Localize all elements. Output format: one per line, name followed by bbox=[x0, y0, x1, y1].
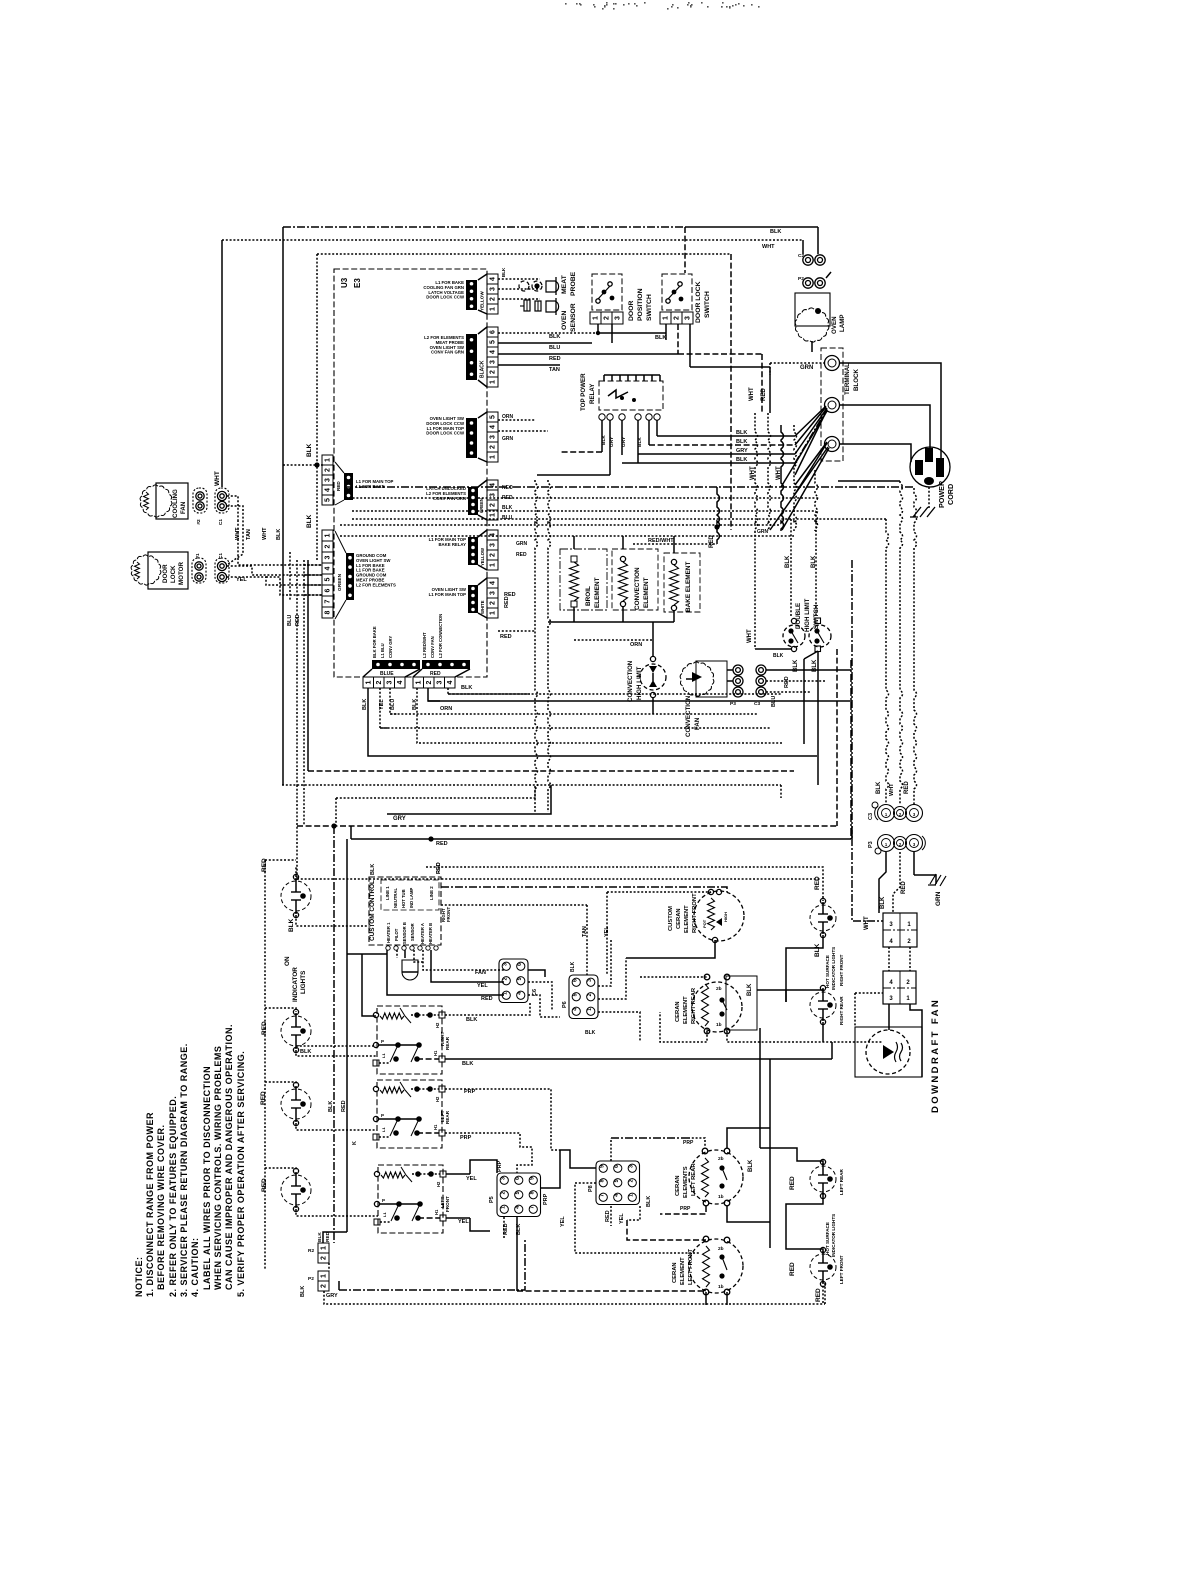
wires P3 down bbox=[879, 852, 886, 913]
svg-text:P: P bbox=[382, 1198, 385, 1203]
svg-text:TAN: TAN bbox=[246, 529, 252, 540]
svg-text:WHITE: WHITE bbox=[480, 600, 485, 614]
svg-text:TAN: TAN bbox=[549, 367, 560, 373]
svg-text:RED: RED bbox=[260, 1091, 267, 1105]
convection high limit wires bbox=[652, 622, 654, 656]
svg-text:BAKE RELAY: BAKE RELAY bbox=[438, 542, 466, 547]
svg-text:2: 2 bbox=[587, 993, 593, 996]
svg-text:4: 4 bbox=[572, 1008, 578, 1011]
wire lamp to terminal block bbox=[811, 341, 813, 352]
svg-text:4: 4 bbox=[490, 277, 497, 281]
svg-text:ELEMENT: ELEMENT bbox=[684, 905, 690, 933]
long dashed line bbox=[297, 825, 837, 827]
svg-text:MOTOR: MOTOR bbox=[178, 562, 185, 585]
svg-text:BLK: BLK bbox=[328, 1101, 334, 1112]
wires right rear element bbox=[640, 976, 707, 978]
svg-text:BLK FOR BAKE: BLK FOR BAKE bbox=[372, 626, 377, 658]
svg-text:2: 2 bbox=[490, 370, 497, 374]
svg-text:GRY: GRY bbox=[609, 436, 615, 447]
connector P5 bbox=[497, 1173, 541, 1217]
svg-text:2: 2 bbox=[628, 1179, 634, 1182]
svg-text:BLK: BLK bbox=[736, 439, 747, 445]
svg-text:DOWNDRAFT FAN: DOWNDRAFT FAN bbox=[930, 998, 941, 1113]
svg-text:WHT: WHT bbox=[776, 466, 782, 480]
door position switch bbox=[592, 274, 622, 310]
bus line RED WHT bbox=[633, 543, 717, 545]
svg-text:PRP: PRP bbox=[460, 1135, 472, 1141]
svg-text:FRONT: FRONT bbox=[446, 907, 451, 922]
double high limit wires bbox=[790, 519, 792, 617]
svg-text:P: P bbox=[381, 1039, 384, 1044]
svg-text:#2: #2 bbox=[196, 519, 202, 525]
wires from custom control pins bbox=[347, 953, 387, 955]
svg-text:LAMP: LAMP bbox=[839, 314, 846, 332]
wires P1 to downdraft fan bbox=[888, 1004, 890, 1030]
svg-text:P3: P3 bbox=[868, 841, 874, 848]
connector P2 bbox=[318, 1271, 329, 1281]
svg-text:9: 9 bbox=[599, 1165, 605, 1168]
svg-text:3: 3 bbox=[490, 435, 497, 439]
fan connector wires bbox=[727, 669, 733, 671]
terminal 3 bbox=[825, 437, 840, 452]
svg-text:ELEMENT: ELEMENT bbox=[594, 577, 601, 608]
wires right rear indicator bbox=[786, 988, 823, 1002]
svg-text:BLK: BLK bbox=[549, 334, 560, 340]
svg-text:RIGHT FRONT: RIGHT FRONT bbox=[692, 893, 698, 933]
connector P1 grid bbox=[883, 971, 916, 1004]
svg-text:BLK: BLK bbox=[570, 961, 576, 972]
svg-text:LINE 1: LINE 1 bbox=[385, 886, 390, 900]
svg-text:6: 6 bbox=[515, 1177, 521, 1180]
wires from fan/motor connectors to green connector bbox=[227, 506, 243, 564]
wires door position switch bbox=[597, 324, 599, 333]
oven box bottom line bbox=[336, 785, 535, 798]
svg-text:TERMINAL: TERMINAL bbox=[844, 363, 851, 395]
svg-text:BLK: BLK bbox=[306, 443, 313, 457]
svg-text:L1: L1 bbox=[382, 1212, 387, 1217]
svg-text:HEATER A: HEATER A bbox=[420, 923, 425, 944]
svg-text:C2: C2 bbox=[798, 253, 804, 259]
svg-text:6: 6 bbox=[614, 1165, 620, 1168]
svg-text:3: 3 bbox=[500, 1177, 506, 1180]
cooling fan connector C2 bbox=[215, 488, 229, 513]
svg-text:BLK: BLK bbox=[747, 983, 753, 996]
svg-text:CONV GRY: CONV GRY bbox=[388, 636, 393, 658]
svg-text:1: 1 bbox=[365, 680, 372, 684]
svg-text:1: 1 bbox=[500, 1206, 506, 1209]
custom control pins bbox=[386, 946, 390, 950]
svg-text:ORN: ORN bbox=[502, 414, 514, 420]
svg-text:INDICATOR LIGHTS: INDICATOR LIGHTS bbox=[831, 947, 836, 990]
svg-text:POWER: POWER bbox=[937, 480, 946, 508]
svg-text:OVEN: OVEN bbox=[831, 316, 838, 334]
svg-text:H2: H2 bbox=[436, 1181, 441, 1187]
svg-text:1: 1 bbox=[490, 563, 497, 567]
svg-text:GRY: GRY bbox=[621, 436, 627, 447]
svg-text:BLK: BLK bbox=[814, 943, 821, 957]
svg-text:4: 4 bbox=[490, 581, 497, 585]
door lock motor bbox=[131, 555, 161, 585]
infinite switch left front bbox=[378, 1165, 443, 1233]
long horizontal lower oven lines bbox=[308, 770, 794, 772]
custom control inner box bbox=[381, 880, 439, 910]
wires left front indicator bbox=[786, 1240, 823, 1252]
svg-text:H2: H2 bbox=[435, 1022, 440, 1028]
svg-text:YEL: YEL bbox=[466, 1176, 477, 1182]
wires custom ceran right front bbox=[586, 905, 588, 975]
svg-text:7: 7 bbox=[529, 1206, 535, 1209]
svg-text:L1: L1 bbox=[381, 1053, 386, 1058]
svg-text:CONVECTION: CONVECTION bbox=[627, 660, 634, 702]
svg-text:GRY: GRY bbox=[393, 816, 406, 822]
svg-text:YEL: YEL bbox=[236, 577, 247, 583]
svg-text:POSITION: POSITION bbox=[637, 288, 644, 321]
wires door switches to bundle bbox=[665, 333, 667, 340]
outer border box left/top bbox=[283, 226, 685, 228]
svg-text:RED: RED bbox=[336, 481, 341, 491]
infinite switch left rear bbox=[377, 1080, 442, 1148]
svg-text:BLU: BLU bbox=[502, 515, 513, 521]
svg-text:P5: P5 bbox=[489, 1196, 495, 1203]
connector C3 column bbox=[756, 665, 766, 675]
svg-text:LIGHTS: LIGHTS bbox=[300, 970, 307, 994]
svg-text:2: 2 bbox=[502, 977, 508, 980]
verticals into bottom section bbox=[333, 826, 335, 1243]
svg-text:GREEN: GREEN bbox=[479, 498, 484, 513]
svg-text:SWITCH: SWITCH bbox=[704, 291, 711, 318]
wire BLK corner to door lock switch bbox=[684, 227, 686, 273]
svg-text:RED: RED bbox=[502, 495, 513, 501]
svg-text:OVEN: OVEN bbox=[561, 311, 568, 330]
svg-text:2. REFER ONLY TO FEATURES EQUI: 2. REFER ONLY TO FEATURES EQUIPPED. bbox=[168, 1096, 178, 1297]
svg-text:3: 3 bbox=[502, 963, 508, 966]
svg-text:2: 2 bbox=[490, 553, 497, 557]
svg-text:6: 6 bbox=[517, 963, 523, 966]
svg-text:RIGHT REAR: RIGHT REAR bbox=[839, 996, 844, 1025]
svg-text:YEL: YEL bbox=[458, 1219, 469, 1225]
svg-text:CONV FAN GRN: CONV FAN GRN bbox=[433, 496, 466, 501]
wires P5 bbox=[470, 1160, 497, 1174]
svg-text:HOT SURFACE: HOT SURFACE bbox=[825, 955, 830, 988]
svg-text:BLK: BLK bbox=[300, 1286, 306, 1297]
svg-text:LEFT REAR: LEFT REAR bbox=[691, 1163, 697, 1196]
svg-text:RED: RED bbox=[516, 552, 527, 558]
svg-text:BLK: BLK bbox=[461, 685, 472, 691]
svg-text:5: 5 bbox=[517, 977, 523, 980]
dash dot wire left of R1 bbox=[852, 838, 883, 921]
wires R2 P2 bbox=[333, 1242, 335, 1244]
wires light1 bbox=[295, 867, 297, 877]
svg-text:RED: RED bbox=[814, 876, 821, 890]
svg-text:2: 2 bbox=[325, 544, 332, 548]
svg-text:3: 3 bbox=[325, 555, 332, 559]
svg-text:3: 3 bbox=[490, 360, 497, 364]
svg-text:H1: H1 bbox=[433, 1050, 438, 1056]
element wires bbox=[573, 536, 575, 549]
connector R2 bbox=[318, 1243, 329, 1253]
ceran element right rear bbox=[692, 982, 742, 1032]
svg-text:2b: 2b bbox=[718, 1156, 724, 1162]
svg-text:HIGH: HIGH bbox=[723, 912, 728, 922]
bus wires middle right bbox=[759, 1028, 761, 1148]
svg-text:BLK: BLK bbox=[880, 896, 886, 909]
ceran element left front bbox=[689, 1239, 743, 1293]
svg-text:YEL: YEL bbox=[477, 983, 488, 989]
svg-text:3: 3 bbox=[436, 680, 443, 684]
svg-text:ELEMENT: ELEMENT bbox=[680, 1257, 686, 1285]
svg-text:BLUE: BLUE bbox=[380, 671, 394, 677]
svg-text:TOP POWER: TOP POWER bbox=[580, 373, 587, 411]
svg-text:2b: 2b bbox=[716, 986, 722, 992]
top power relay bbox=[599, 381, 663, 410]
svg-text:BLK: BLK bbox=[736, 457, 747, 463]
svg-text:LOCK: LOCK bbox=[170, 565, 177, 583]
svg-text:CUSTOM CONTROL: CUSTOM CONTROL bbox=[369, 880, 376, 941]
wire bundle below terminal block bbox=[755, 413, 758, 531]
svg-text:LINE 2: LINE 2 bbox=[429, 886, 434, 900]
connector P3 column bbox=[733, 665, 743, 675]
svg-text:1: 1 bbox=[325, 533, 332, 537]
wire left RED bbox=[264, 860, 266, 1270]
svg-text:#1: #1 bbox=[195, 553, 201, 559]
cooling fan connector P2 bbox=[193, 488, 207, 513]
svg-text:FAN: FAN bbox=[475, 970, 486, 976]
svg-text:RED: RED bbox=[341, 1100, 347, 1112]
wire top line 2 WHT bbox=[222, 239, 803, 241]
svg-text:BLK: BLK bbox=[785, 555, 791, 568]
svg-text:BLK: BLK bbox=[637, 437, 643, 447]
svg-text:L2 FOR CONNECTION: L2 FOR CONNECTION bbox=[438, 614, 443, 658]
svg-text:BAKE ELEMENT: BAKE ELEMENT bbox=[685, 561, 692, 612]
oven connector RED P5 bbox=[322, 455, 333, 465]
svg-text:TAN: TAN bbox=[582, 926, 588, 937]
svg-text:DOUBLE: DOUBLE bbox=[795, 603, 802, 629]
svg-text:1: 1 bbox=[663, 316, 670, 320]
svg-text:ORN: ORN bbox=[630, 642, 642, 648]
svg-text:BLU: BLU bbox=[549, 345, 560, 351]
svg-text:LABEL ALL WIRES PRIOR TO DISCO: LABEL ALL WIRES PRIOR TO DISCONNECTION bbox=[202, 1066, 212, 1290]
svg-text:WHT: WHT bbox=[864, 916, 870, 930]
svg-text:1: 1 bbox=[587, 1008, 593, 1011]
terminal block bbox=[821, 348, 843, 461]
wire to C2 lamp connector bbox=[802, 240, 804, 254]
svg-text:4: 4 bbox=[515, 1206, 521, 1209]
wires switch2 bbox=[445, 1089, 560, 1150]
svg-text:COOLING: COOLING bbox=[172, 489, 179, 518]
connector P3 row bbox=[878, 835, 895, 852]
fan-in diagonals to terminal 2 bbox=[795, 406, 826, 436]
svg-text:MEAT: MEAT bbox=[561, 274, 568, 294]
svg-text:HOT TUB: HOT TUB bbox=[401, 889, 406, 908]
svg-text:SWITCH: SWITCH bbox=[646, 294, 653, 321]
svg-text:BLK: BLK bbox=[501, 267, 506, 277]
svg-text:HIGH LIMIT: HIGH LIMIT bbox=[636, 666, 643, 700]
svg-text:4: 4 bbox=[325, 566, 332, 570]
svg-text:BLU: BLU bbox=[287, 615, 293, 626]
svg-text:PROBE: PROBE bbox=[570, 271, 577, 296]
svg-text:BLK: BLK bbox=[736, 430, 747, 436]
svg-text:RED: RED bbox=[709, 535, 715, 548]
svg-text:RED: RED bbox=[436, 841, 448, 847]
svg-text:BLK: BLK bbox=[646, 1196, 652, 1207]
convection element bbox=[612, 549, 658, 610]
svg-text:5: 5 bbox=[325, 577, 332, 581]
junction dot blk bbox=[314, 462, 319, 467]
svg-text:L1 BLU: L1 BLU bbox=[380, 643, 385, 658]
svg-text:BLU: BLU bbox=[390, 699, 396, 710]
svg-text:ELEMENT: ELEMENT bbox=[643, 577, 650, 608]
svg-text:RED: RED bbox=[789, 1262, 796, 1276]
svg-text:1: 1 bbox=[490, 307, 497, 311]
electronic oven control U3 E3 dashed box bbox=[334, 269, 487, 677]
lower connector YELLOW C2 bbox=[487, 530, 498, 540]
svg-text:BLK: BLK bbox=[876, 781, 882, 794]
svg-text:P: P bbox=[381, 1113, 384, 1118]
svg-text:4: 4 bbox=[490, 425, 497, 429]
svg-text:4: 4 bbox=[490, 483, 497, 487]
oven connector GREEN P3 bbox=[322, 530, 333, 541]
connector C6 bbox=[499, 959, 528, 1003]
svg-text:BLK: BLK bbox=[502, 505, 513, 511]
svg-text:5: 5 bbox=[490, 340, 497, 344]
svg-text:GREEN: GREEN bbox=[337, 573, 343, 591]
wires right verticals bbox=[851, 560, 853, 838]
custom ceran element right front bbox=[694, 891, 744, 941]
svg-text:NEUTRAL: NEUTRAL bbox=[393, 888, 398, 908]
wires light2 bbox=[265, 1008, 296, 1012]
double high limit switch bbox=[783, 625, 805, 647]
svg-text:1: 1 bbox=[502, 992, 508, 995]
svg-text:LEFT FRONT: LEFT FRONT bbox=[688, 1248, 694, 1285]
svg-text:HEATER B: HEATER B bbox=[428, 923, 433, 944]
oven lamp bbox=[795, 293, 830, 326]
svg-text:FRONT: FRONT bbox=[445, 1196, 450, 1212]
hot surface indicator right front bbox=[810, 905, 836, 931]
svg-text:RED: RED bbox=[261, 1178, 268, 1192]
svg-text:P3: P3 bbox=[730, 701, 736, 707]
svg-text:L2 RED/WHT: L2 RED/WHT bbox=[422, 632, 427, 658]
svg-text:6: 6 bbox=[490, 330, 497, 334]
svg-text:L1: L1 bbox=[381, 1127, 386, 1132]
svg-text:5: 5 bbox=[572, 993, 578, 996]
svg-text:CORD: CORD bbox=[946, 484, 955, 505]
page header dots bbox=[688, 2, 690, 4]
svg-text:K: K bbox=[352, 1141, 358, 1145]
oven lamp connector C2 pair bbox=[803, 255, 813, 265]
right vertical buses bottom bbox=[769, 1128, 771, 1248]
svg-text:1. DISCONNECT RANGE FROM POWER: 1. DISCONNECT RANGE FROM POWER bbox=[145, 1112, 155, 1297]
indicator light 3 bbox=[281, 1089, 311, 1119]
svg-text:R2: R2 bbox=[308, 1248, 314, 1254]
svg-text:CONV FAN: CONV FAN bbox=[430, 636, 435, 658]
svg-text:RED: RED bbox=[430, 671, 441, 677]
svg-text:CONVECTION: CONVECTION bbox=[634, 567, 641, 610]
svg-text:IND LAMP: IND LAMP bbox=[409, 888, 414, 908]
svg-text:1: 1 bbox=[628, 1194, 634, 1197]
svg-text:3: 3 bbox=[490, 493, 497, 497]
broil element bbox=[560, 549, 607, 610]
svg-text:BLOCK: BLOCK bbox=[853, 368, 860, 391]
svg-text:WHT: WHT bbox=[235, 527, 241, 540]
svg-text:L2 FOR ELEMENTS: L2 FOR ELEMENTS bbox=[356, 582, 396, 587]
svg-text:ELEMENTS: ELEMENTS bbox=[683, 1166, 689, 1198]
svg-text:BLU: BLU bbox=[771, 696, 777, 707]
wire dotted y879 bbox=[297, 878, 821, 880]
wire top line 3 bbox=[317, 253, 731, 255]
svg-text:WHT: WHT bbox=[747, 629, 753, 643]
svg-text:CERAN: CERAN bbox=[675, 1001, 681, 1022]
svg-text:SENSOR: SENSOR bbox=[570, 303, 577, 332]
svg-text:RED: RED bbox=[295, 614, 301, 626]
svg-text:REAR: REAR bbox=[445, 1036, 450, 1050]
svg-text:9: 9 bbox=[529, 1177, 535, 1180]
svg-text:BLACK: BLACK bbox=[480, 360, 486, 378]
terminal 2 bbox=[825, 398, 840, 413]
svg-text:C1: C1 bbox=[218, 553, 224, 559]
svg-text:GRN: GRN bbox=[757, 529, 769, 535]
svg-text:BLK: BLK bbox=[601, 435, 607, 445]
svg-text:GRY: GRY bbox=[736, 448, 748, 454]
power cord wires bbox=[840, 363, 941, 462]
svg-text:5: 5 bbox=[614, 1179, 620, 1182]
cooling fan bbox=[140, 485, 172, 517]
svg-text:GRN: GRN bbox=[935, 891, 942, 906]
lower connector WHITE C1 bbox=[487, 578, 498, 588]
svg-text:RED: RED bbox=[605, 1210, 611, 1222]
svg-text:BLK: BLK bbox=[306, 514, 313, 528]
long bottom lines bbox=[339, 1240, 525, 1290]
hot surface indicator left front bbox=[810, 1254, 836, 1280]
oven sensor and meat probe symbols bbox=[519, 281, 529, 291]
wires P8 bbox=[560, 1150, 596, 1168]
lower connector GREEN C4 bbox=[487, 480, 498, 490]
svg-text:8: 8 bbox=[325, 610, 332, 614]
svg-text:2: 2 bbox=[426, 680, 433, 684]
svg-text:2: 2 bbox=[674, 316, 681, 320]
wires light3 bbox=[265, 1082, 296, 1085]
downdraft fan box bbox=[855, 1027, 922, 1077]
svg-text:INDICATOR LIGHTS: INDICATOR LIGHTS bbox=[831, 1214, 836, 1257]
svg-text:1: 1 bbox=[415, 680, 422, 684]
ground GRN top bbox=[914, 875, 936, 884]
svg-text:WHT: WHT bbox=[214, 471, 221, 486]
svg-text:P8: P8 bbox=[588, 1185, 594, 1192]
svg-text:ORN: ORN bbox=[440, 706, 452, 712]
ceran element right rear box bbox=[726, 976, 757, 1030]
bus wires to terminal block bbox=[657, 435, 795, 437]
svg-text:CAN CAUSE IMPROPER AND DANGERO: CAN CAUSE IMPROPER AND DANGEROUS OPERATI… bbox=[224, 1024, 234, 1290]
svg-text:RED: RED bbox=[549, 356, 561, 362]
bus lines middle of oven box bbox=[345, 486, 914, 488]
svg-text:RED: RED bbox=[784, 676, 790, 688]
svg-text:CERAN: CERAN bbox=[672, 1262, 678, 1283]
svg-text:2: 2 bbox=[604, 316, 611, 320]
wire BLU RED to control bbox=[296, 560, 298, 785]
svg-text:YEL: YEL bbox=[619, 1213, 625, 1224]
svg-text:1b: 1b bbox=[716, 1022, 722, 1028]
svg-text:GRY: GRY bbox=[326, 1293, 338, 1299]
svg-text:CUSTOM: CUSTOM bbox=[668, 906, 674, 931]
svg-text:ON: ON bbox=[284, 956, 291, 966]
svg-text:3: 3 bbox=[325, 478, 332, 482]
wires yellow conn to oven sensor bbox=[498, 278, 540, 280]
svg-text:5: 5 bbox=[325, 498, 332, 502]
svg-text:2b: 2b bbox=[718, 1246, 724, 1252]
svg-text:YELLOW: YELLOW bbox=[480, 548, 485, 566]
svg-text:LEFT REAR: LEFT REAR bbox=[839, 1169, 844, 1195]
svg-text:3: 3 bbox=[490, 287, 497, 291]
svg-text:LEFT FRONT: LEFT FRONT bbox=[839, 1255, 844, 1284]
